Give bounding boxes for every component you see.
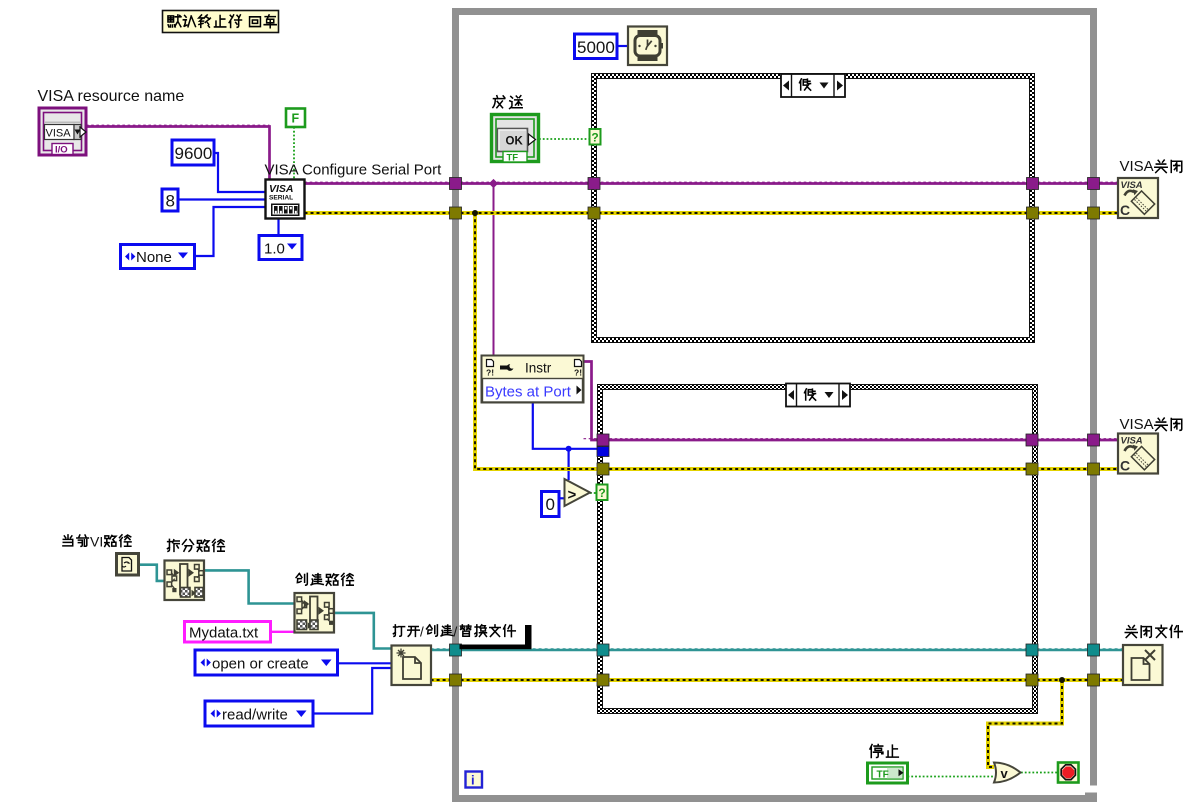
tunnel: error loop-right mid (1088, 463, 1100, 475)
svg-text:VISA: VISA (269, 183, 294, 195)
VISA resource name control (39, 108, 86, 156)
tunnel: case 2 selector terminal ? (597, 485, 608, 501)
label: close file (1125, 626, 1137, 638)
wire: blue open-or-create to open file (337, 662, 392, 664)
ring constant 1.0 (259, 236, 302, 260)
tunnel: purple case2-right (1026, 434, 1038, 446)
svg-text:C: C (1120, 202, 1130, 218)
svg-text:?!: ?! (574, 368, 582, 378)
svg-text:Instr: Instr (525, 361, 552, 376)
property node Instr / Bytes at Port (482, 356, 584, 403)
svg-text:0: 0 (546, 495, 555, 514)
current VI path node (117, 554, 139, 576)
tunnel: teal loop-left (450, 644, 462, 656)
label: send (493, 96, 505, 108)
junction dot blue (566, 446, 572, 452)
svg-text:VISA: VISA (1120, 158, 1154, 175)
ring constant read/write (205, 701, 313, 726)
svg-text:None: None (136, 249, 172, 266)
svg-text:Bytes at Port: Bytes at Port (485, 384, 572, 401)
wire: teal file refnum to close file (431, 649, 1123, 652)
wire: green boolean > result to case 2 selector (590, 492, 598, 494)
svg-text:VISA: VISA (1120, 416, 1154, 433)
junction diamond on purple wire (489, 179, 498, 188)
wire: teal build path to open file (334, 613, 392, 649)
or gate (994, 763, 1021, 783)
svg-text:?: ? (598, 486, 605, 500)
case structure 1 frame (592, 74, 1035, 343)
svg-text:TF: TF (507, 153, 519, 164)
wire: blue 0 to greater node (559, 497, 565, 499)
svg-text:VISA Configure Serial Port: VISA Configure Serial Port (265, 162, 443, 179)
label: open/create/replace file (393, 625, 404, 637)
svg-text:read/write: read/write (222, 707, 288, 724)
wire: green boolean F to serial config (293, 127, 295, 180)
tunnel: error case2-left (597, 463, 609, 475)
svg-text:8: 8 (166, 192, 175, 211)
junction dot error 2 (1059, 677, 1065, 683)
OK button terminal (492, 115, 539, 164)
svg-text:VISA resource name: VISA resource name (38, 88, 185, 105)
svg-text:open or create: open or create (212, 656, 309, 673)
open/create/replace file node (392, 646, 432, 686)
svg-text:>: > (568, 487, 577, 504)
label shadow bars (525, 625, 532, 649)
svg-text:/: / (420, 625, 424, 640)
svg-text:C: C (1120, 458, 1130, 474)
wire texture overlays (305, 181, 1118, 183)
svg-text:1.0: 1.0 (264, 241, 285, 258)
build path node (295, 593, 335, 633)
svg-text:VI: VI (90, 534, 103, 550)
tunnel: purple case1-right (1027, 178, 1039, 190)
tunnel: purple case1-left (588, 178, 600, 190)
tunnel: error case2-right lower (1026, 674, 1038, 686)
tunnel: purple loop-right mid (1088, 434, 1100, 446)
wire: blue bytes-at-port to case2 tunnel (533, 402, 597, 449)
wait (ms) node (628, 27, 667, 66)
svg-text:I/O: I/O (55, 145, 68, 156)
tunnel: error loop-left (450, 207, 462, 219)
svg-text:TF: TF (877, 770, 889, 781)
label: stop (870, 744, 883, 757)
loop iteration terminal i (466, 772, 483, 788)
ring constant open or create (195, 650, 338, 675)
tunnel: error case1-right (1027, 207, 1039, 219)
while loop border (456, 12, 1094, 799)
tunnel: error loop-right bottom (1088, 674, 1100, 686)
constant 9600 (172, 140, 214, 165)
ring constant None (121, 245, 195, 269)
tunnel: blue case2-left (597, 447, 609, 457)
wire: pink Mydata.txt to build path (271, 631, 295, 633)
svg-text:SERIAL: SERIAL (269, 195, 293, 202)
wire: blue branch to greater node (567, 449, 569, 480)
svg-text:?: ? (591, 131, 598, 145)
split path node (165, 561, 205, 601)
constant 5000 (575, 34, 618, 59)
case structure 1 selector label (781, 74, 845, 97)
wire: error open file to close file (431, 678, 1123, 682)
constant 0 (542, 492, 560, 517)
tunnel: case 1 selector terminal ? (590, 129, 601, 145)
tunnel: purple loop-right top (1088, 178, 1100, 190)
constant 8 (162, 189, 178, 211)
svg-text:OK: OK (506, 136, 524, 148)
label: split path (167, 539, 179, 551)
tunnel: error case2-right (1026, 463, 1038, 475)
wire: error branch to Or gate (988, 680, 1062, 767)
wire: VISA purple branch down to property node (493, 184, 495, 356)
wire: blue 1.0 to serial config (277, 219, 279, 236)
svg-text:/: / (454, 625, 458, 640)
tunnel: error case1-left (588, 207, 600, 219)
wire: teal current VI path to split path (139, 565, 165, 581)
wire: blue read-write to open file (313, 668, 392, 714)
wire: VISA resource purple main line to VISA Close 1 (305, 182, 1118, 185)
label: build path (296, 573, 307, 585)
tunnel: teal loop-right bottom (1088, 644, 1100, 656)
VISA Configure Serial Port node (266, 180, 305, 219)
tunnel: purple case2-left (597, 434, 609, 446)
free label: default terminator (163, 11, 279, 33)
svg-text:F: F (292, 112, 300, 126)
tunnel: error case2-left lower (597, 674, 609, 686)
svg-text:VISA: VISA (1121, 436, 1143, 447)
VISA close node 2 (1118, 434, 1158, 474)
svg-text:v: v (1001, 766, 1009, 781)
svg-text:?!: ?! (486, 368, 494, 378)
junction dot error 1 (472, 210, 478, 216)
case structure 2 frame (598, 385, 1038, 714)
svg-text:VISA: VISA (1121, 180, 1143, 191)
tunnel: error loop-left lower (450, 674, 462, 686)
wire: blue 5000 to wait (617, 45, 628, 47)
wire: VISA resource purple from control to Configure Serial Port (86, 127, 270, 180)
wire: blue 9600 to serial config (214, 153, 266, 192)
tunnel: purple loop-left (450, 178, 462, 190)
svg-text:VISA: VISA (46, 128, 72, 140)
wire: blue 8 to serial config (178, 198, 266, 200)
constant Mydata.txt (185, 622, 271, 643)
VISA close node 1 (1118, 178, 1158, 218)
tunnel: teal case2-left (597, 644, 609, 656)
wire: blue None to serial config (195, 207, 266, 256)
loop condition terminal (stop sign) (1058, 763, 1079, 783)
svg-text:Mydata.txt: Mydata.txt (189, 625, 259, 642)
wire: green boolean stop TF to Or gate (908, 776, 994, 778)
svg-text:5000: 5000 (577, 38, 615, 57)
svg-text:9600: 9600 (175, 144, 213, 163)
tunnel: teal case2-right (1026, 644, 1038, 656)
close file node (1123, 645, 1163, 685)
greater-than node (565, 479, 591, 506)
wire: green boolean Or gate to loop condition (1021, 772, 1058, 774)
tunnel: error loop-right top (1088, 207, 1100, 219)
constant F (false) (286, 109, 305, 128)
label: current VI path (63, 535, 73, 546)
wire: teal split path to build path (203, 570, 295, 603)
case structure 2 selector label (786, 384, 850, 407)
wire: green boolean OK button to case selector (539, 138, 591, 140)
wire: VISA purple from property node to VISA Close 2 (584, 362, 1118, 441)
wire: error cluster serial config to VISA close 1 (305, 211, 1118, 215)
svg-text:i: i (471, 773, 475, 788)
wire: error branch down through case 2 to VISA close 2 (475, 213, 1118, 469)
stop TF button terminal (868, 763, 908, 783)
